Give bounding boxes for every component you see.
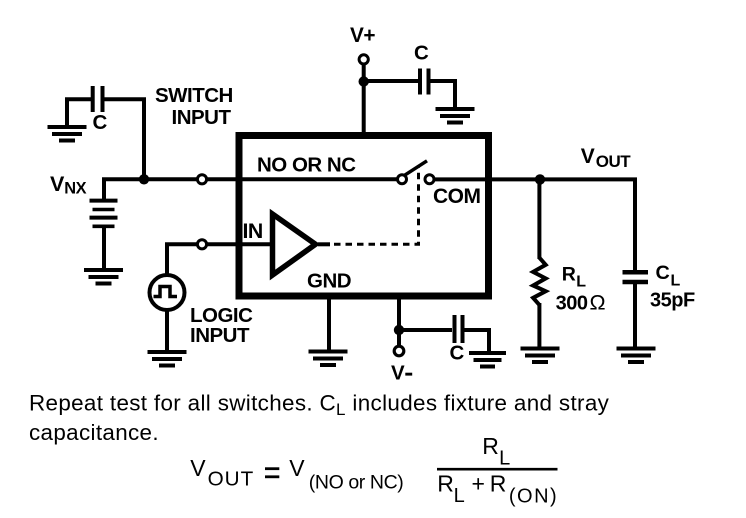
svg-text:C: C (414, 41, 429, 64)
equation fraction bar (437, 468, 558, 471)
battery VNX source (90, 201, 118, 227)
op-amp buffer A1 (273, 214, 316, 275)
svg-text:GND: GND (307, 269, 351, 292)
wire V- to capacitor (399, 328, 452, 332)
label VNX (50, 172, 87, 198)
label LOGIC INPUT (190, 304, 253, 347)
ground (battery) (84, 270, 123, 284)
wire right plate down to node VNX (104, 99, 144, 179)
wire CL to ground (633, 283, 637, 349)
svg-text:(ON): (ON) (509, 485, 558, 507)
svg-text:(NO or NC): (NO or NC) (309, 471, 404, 493)
svg-text:OUT: OUT (208, 467, 255, 490)
terminal V+ (359, 55, 368, 64)
ground (GND pin) (309, 352, 348, 366)
svg-text:INPUT: INPUT (190, 324, 250, 347)
ground (logic input) (148, 352, 187, 366)
svg-text:COM: COM (433, 185, 481, 208)
switch S1 pole contact (398, 175, 407, 184)
svg-text:IN: IN (243, 219, 263, 243)
equation fraction numerator RL (482, 433, 510, 470)
svg-text:L: L (576, 274, 586, 291)
svg-text:SWITCH: SWITCH (155, 84, 233, 107)
capacitor C (V- decoupling) (455, 315, 463, 343)
svg-text:+: + (472, 471, 485, 497)
node V+ junction (359, 76, 369, 86)
svg-text:Ω: Ω (590, 290, 606, 314)
svg-text:V: V (289, 455, 305, 481)
logic pulse source V1 (150, 275, 185, 310)
svg-text:35pF: 35pF (650, 289, 695, 311)
svg-text:L: L (499, 448, 510, 470)
svg-text:NX: NX (64, 180, 86, 198)
wire IN terminal to logic source (167, 244, 198, 274)
svg-text:L: L (454, 485, 465, 507)
equation fraction denominator RL + R(ON) (437, 471, 558, 508)
svg-text:R: R (562, 264, 576, 286)
label RL 300ohm (556, 264, 606, 315)
ground (CL) (617, 349, 656, 363)
svg-text:R: R (437, 471, 454, 497)
wire battery to ground (102, 226, 106, 270)
capacitor CL (623, 272, 649, 282)
wire V- cap to ground (464, 330, 489, 353)
svg-text:300: 300 (556, 292, 588, 314)
switch S1 throw contact (425, 175, 434, 184)
svg-text:V: V (391, 362, 405, 385)
node VNX junction (139, 174, 149, 184)
ground (V+ cap) (436, 109, 475, 123)
wire C to ground (top right) (430, 81, 455, 109)
svg-text:V: V (581, 145, 595, 168)
svg-text:INPUT: INPUT (172, 106, 232, 129)
resistor RL (533, 258, 546, 305)
ground (RL) (521, 349, 560, 363)
wire GND pin (327, 296, 331, 352)
wire V- pin (397, 296, 401, 330)
wire VNX to NO terminal (144, 177, 198, 181)
wire logic source to ground (165, 310, 169, 352)
wire resistor to ground (537, 303, 541, 349)
svg-text:V: V (50, 172, 65, 196)
switch S1 lever (405, 161, 428, 176)
label CL 35pF (650, 262, 695, 311)
svg-text:C: C (93, 111, 108, 134)
wire VNX to battery (104, 179, 144, 200)
svg-text:C: C (656, 262, 670, 284)
svg-text:C: C (450, 342, 465, 365)
equation VOUT (190, 455, 403, 493)
node VOUT junction (535, 174, 545, 184)
node V- junction (394, 325, 404, 335)
wire NO terminal into box to switch (207, 177, 398, 181)
svg-text:R: R (482, 433, 499, 459)
wire VOUT node to resistor (537, 179, 541, 259)
svg-text:NO OR NC: NO OR NC (257, 154, 356, 177)
wire V+ vertical (362, 64, 366, 136)
wire buffer output stub (318, 242, 330, 246)
capacitor C (V+ decoupling) (420, 69, 429, 95)
label VOUT (581, 145, 632, 171)
svg-text:Repeat test for all switches.: Repeat test for all switches. CL include… (29, 391, 610, 420)
wire V- junction to terminal (397, 330, 401, 346)
dashed wire buffer to switch (334, 166, 419, 244)
wire IN inside box (207, 242, 270, 246)
IC box U1 (239, 136, 489, 297)
capacitor C (switch input) (93, 86, 103, 112)
svg-text:OUT: OUT (596, 152, 632, 171)
ground (V- cap) (469, 353, 506, 367)
terminal IN (197, 240, 206, 249)
wire V+ to capacitor C top (364, 79, 419, 83)
label V- (391, 362, 412, 385)
ground (switch input cap) (48, 127, 87, 141)
svg-text:L: L (671, 273, 681, 290)
wire left plate to ground (67, 99, 91, 127)
svg-text:V+: V+ (350, 24, 375, 47)
svg-text:capacitance.: capacitance. (29, 420, 159, 445)
wire COM to VOUT corner (434, 179, 635, 270)
terminal NO/NC input (197, 175, 206, 184)
svg-text:R: R (490, 471, 507, 497)
svg-text:V: V (190, 455, 206, 481)
terminal V- (394, 346, 404, 356)
label SWITCH INPUT (155, 84, 233, 129)
